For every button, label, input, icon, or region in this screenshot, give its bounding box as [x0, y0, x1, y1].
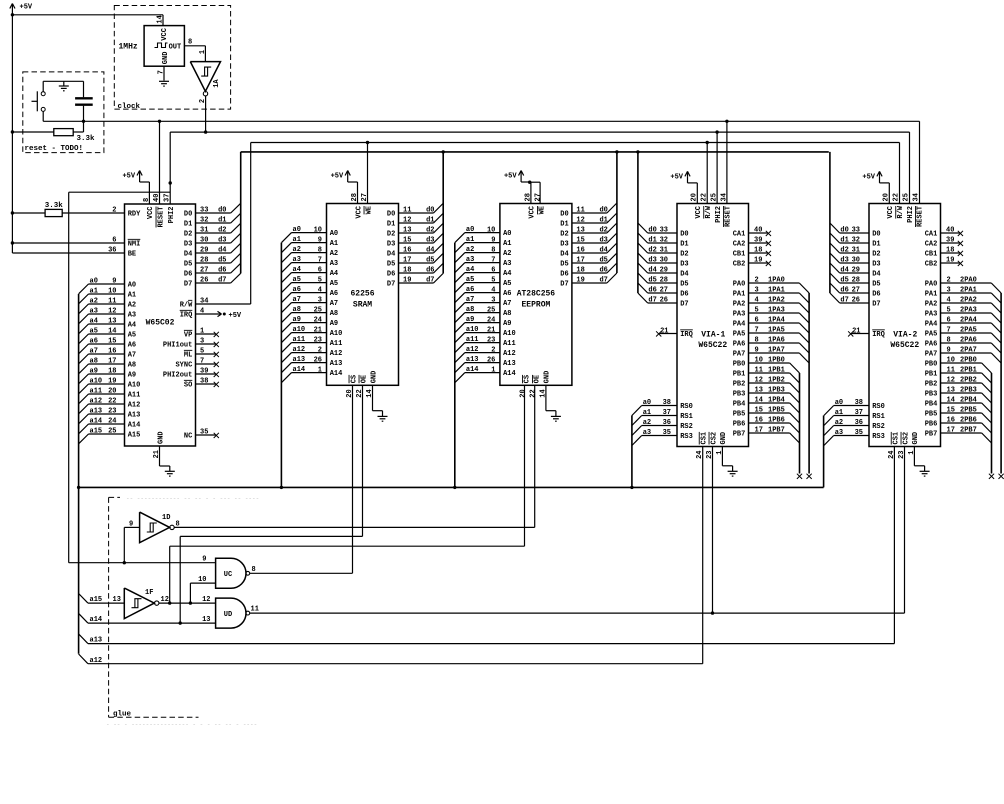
VIA-2 pin 27 D6: [840, 292, 869, 294]
wire VIA-1 CS2 pin down to UD net: [712, 447, 714, 614]
VIA-2 body: [869, 204, 941, 447]
svg-text:19: 19: [754, 257, 762, 265]
svg-text:PA5: PA5: [925, 331, 938, 339]
svg-text:16: 16: [108, 348, 116, 356]
CPU pin 27 D6: [196, 272, 231, 274]
svg-text:PA5: PA5: [733, 331, 746, 339]
svg-text:a1: a1: [466, 236, 474, 244]
svg-text:a14: a14: [466, 366, 479, 374]
svg-text:a12: a12: [90, 657, 103, 665]
svg-text:ML: ML: [184, 352, 192, 360]
svg-text:d4: d4: [648, 267, 656, 275]
VIA-2 pin 29 D4: [840, 272, 869, 274]
svg-text:A2: A2: [503, 250, 511, 258]
svg-text:RDY: RDY: [128, 211, 141, 219]
svg-text:9: 9: [129, 521, 133, 529]
svg-text:18: 18: [108, 368, 116, 376]
svg-text:GND: GND: [162, 52, 170, 65]
SRAM 62256 pin 24 A9: [292, 322, 327, 324]
svg-text:1PB3: 1PB3: [768, 387, 785, 395]
svg-text:A14: A14: [330, 370, 343, 378]
svg-text:26: 26: [200, 277, 208, 285]
svg-text:A11: A11: [330, 340, 343, 348]
svg-text:PB4: PB4: [733, 401, 746, 409]
svg-text:11: 11: [403, 207, 411, 215]
svg-text:11: 11: [947, 367, 955, 375]
VIA-2 pin 13 PB3: [941, 392, 982, 394]
svg-text:GND: GND: [157, 431, 165, 444]
wire R/W net: [251, 142, 900, 144]
CPU pin 33 D0: [196, 212, 231, 214]
svg-text:18: 18: [946, 247, 954, 255]
svg-text:A4: A4: [330, 270, 338, 278]
svg-text:a7: a7: [466, 296, 474, 304]
svg-text:PB2: PB2: [733, 381, 746, 389]
svg-text:14: 14: [108, 328, 116, 336]
svg-text:a8: a8: [293, 306, 301, 314]
VIA-2 pin 26 D7: [840, 302, 869, 304]
oscillator X? 1MHz body: [144, 26, 184, 67]
EEPROM AT28C256 pin 4 A6: [465, 292, 500, 294]
svg-text:9: 9: [202, 556, 206, 564]
svg-text:RS3: RS3: [872, 433, 885, 441]
svg-text:a10: a10: [293, 326, 306, 334]
svg-text:33: 33: [852, 227, 860, 235]
wire PHI2 down to VIA-2 PHI2 pin: [909, 132, 911, 203]
inverter 1D body: [140, 512, 170, 543]
VIA-1 pin 16 PB6: [749, 422, 790, 424]
svg-text:RS1: RS1: [680, 413, 693, 421]
svg-text:A3: A3: [128, 312, 136, 320]
VIA-1 pin 33 D0: [648, 232, 677, 234]
svg-text:2PB5: 2PB5: [960, 407, 977, 415]
wire CPU R/W pin to R/W net: [196, 303, 251, 305]
svg-text:SO: SO: [184, 382, 192, 390]
svg-text:D2: D2: [680, 251, 688, 259]
CPU pin 29 D4: [196, 252, 231, 254]
CPU pin 24 A14: [89, 423, 125, 425]
svg-text:CS2: CS2: [710, 432, 718, 445]
svg-text:RESET: RESET: [917, 206, 925, 227]
svg-text:a11: a11: [466, 336, 479, 344]
CPU pin 26 D7: [196, 282, 231, 284]
svg-text:IRQ: IRQ: [180, 312, 193, 320]
NAND UC body: [216, 558, 246, 588]
svg-text:15: 15: [403, 237, 411, 245]
svg-text:OE: OE: [360, 375, 368, 383]
resistor R? 3.3k (reset pull-up): [54, 129, 73, 136]
EEPROM AT28C256 pin 22 OE: [532, 375, 541, 383]
inverter 1D output pin 8 wire to EEPROM OE: [174, 526, 535, 528]
svg-text:A0: A0: [330, 230, 338, 238]
svg-text:d0: d0: [426, 207, 434, 215]
svg-text:a7: a7: [90, 348, 98, 356]
svg-text:PB3: PB3: [733, 391, 746, 399]
SRAM 62256 pin 13 D2: [399, 232, 434, 234]
CPU pin 18 A9: [89, 373, 125, 375]
EEPROM AT28C256 pin 15 D3: [572, 242, 607, 244]
EEPROM AT28C256 pin 27 WE: [537, 206, 546, 214]
svg-text:a15: a15: [90, 596, 103, 604]
SRAM 62256 pin 14 GND + ground: [372, 385, 374, 410]
data bus VIA-1 vertical: [637, 152, 639, 293]
svg-text:PB7: PB7: [925, 431, 938, 439]
VIA-2 pin 38 RS0: [834, 405, 869, 407]
svg-text:a1: a1: [643, 409, 651, 417]
wire +5V rail to reset resistor: [12, 131, 53, 133]
EEPROM AT28C256 pin 9 A1: [465, 242, 500, 244]
VIA-2 pin 24 CS1: [891, 432, 900, 445]
svg-text:A12: A12: [128, 402, 141, 410]
CPU pin 17 A8: [89, 363, 125, 365]
svg-text:d4: d4: [218, 247, 226, 255]
svg-text:A9: A9: [128, 372, 136, 380]
svg-text:D7: D7: [560, 281, 568, 289]
svg-text:1PA1: 1PA1: [768, 287, 785, 295]
svg-text:29: 29: [200, 247, 208, 255]
junction RESET/CPU: [158, 120, 161, 123]
VIA-1 pin 17 PB7: [749, 432, 790, 434]
svg-text:37: 37: [855, 409, 863, 417]
svg-text:20: 20: [108, 388, 116, 396]
svg-text:a5: a5: [293, 276, 301, 284]
svg-text:PA7: PA7: [733, 351, 746, 359]
capacitor C?: [83, 81, 85, 97]
svg-text:27: 27: [852, 287, 860, 295]
EEPROM AT28C256 pin 21 A10: [465, 332, 500, 334]
svg-text:D1: D1: [387, 221, 395, 229]
VIA-2 pin 17 PB7: [941, 432, 982, 434]
svg-text:17: 17: [108, 358, 116, 366]
svg-text:a3: a3: [466, 256, 474, 264]
svg-text:14: 14: [755, 397, 763, 405]
oscillator pin 14 VCC: [162, 15, 164, 26]
svg-text:21: 21: [314, 326, 322, 334]
VIA-1 pin 26 D7: [648, 302, 677, 304]
VIA-1 pin 28 D5: [648, 282, 677, 284]
svg-text:SRAM: SRAM: [353, 301, 372, 310]
svg-text:a13: a13: [293, 356, 306, 364]
EEPROM AT28C256 pin 24 A9: [465, 322, 500, 324]
VIA-1 pin 23 CS2: [709, 432, 718, 445]
svg-text:a11: a11: [90, 388, 103, 396]
svg-text:PHI2: PHI2: [168, 207, 176, 224]
svg-text:D0: D0: [560, 211, 568, 219]
svg-text:14: 14: [366, 389, 374, 397]
EEPROM AT28C256 pin 11 D0: [572, 212, 607, 214]
svg-text:32: 32: [200, 217, 208, 225]
svg-text:a2: a2: [835, 419, 843, 427]
VIA-1 +5V power symbol: [687, 176, 689, 183]
svg-text:d2: d2: [426, 227, 434, 235]
svg-text:12: 12: [161, 596, 169, 604]
CPU pin 37 PHI2: [169, 132, 171, 204]
VIA-1 pin 9 PA7: [749, 352, 800, 354]
junction +5V rail / oscillator feed: [11, 13, 14, 16]
svg-text:D3: D3: [560, 241, 568, 249]
svg-text:RS1: RS1: [872, 413, 885, 421]
wire EEPROM WE tied to +5V: [530, 181, 540, 183]
svg-text:33: 33: [200, 207, 208, 215]
svg-text:19: 19: [576, 277, 584, 285]
svg-text:A6: A6: [330, 290, 338, 298]
svg-text:A5: A5: [128, 332, 136, 340]
EEPROM AT28C256 pin 16 D4: [572, 252, 607, 254]
svg-text:a4: a4: [466, 266, 474, 274]
svg-text:D2: D2: [560, 231, 568, 239]
svg-text:d7: d7: [218, 277, 226, 285]
CPU pin 22 A12: [89, 403, 125, 405]
svg-text:a6: a6: [90, 338, 98, 346]
svg-text:a4: a4: [90, 318, 98, 326]
svg-text:d3: d3: [648, 257, 656, 265]
svg-text:14: 14: [539, 389, 547, 397]
VIA-1 pin 36 RS2: [642, 425, 677, 427]
svg-text:25: 25: [487, 306, 495, 314]
svg-text:3: 3: [318, 296, 322, 304]
svg-text:31: 31: [200, 227, 208, 235]
oscillator pin 7 GND + ground: [163, 66, 165, 80]
junction d-bus/VIA-1: [636, 150, 639, 153]
wire a15 to inverter 1F: [88, 602, 124, 604]
svg-text:a3: a3: [643, 429, 651, 437]
svg-text:d0: d0: [840, 227, 848, 235]
svg-text:a14: a14: [293, 366, 306, 374]
SRAM 62256 pin 19 D7: [399, 282, 434, 284]
svg-text:1PA3: 1PA3: [768, 307, 785, 315]
svg-text:VCC: VCC: [529, 206, 537, 219]
junction RESET/VIA-1: [725, 120, 728, 123]
svg-text:20: 20: [519, 389, 527, 397]
svg-text:a9: a9: [90, 368, 98, 376]
svg-text:29: 29: [852, 267, 860, 275]
VIA-1 pin 6 PA4: [749, 322, 800, 324]
svg-text:40: 40: [754, 227, 762, 235]
svg-text:12: 12: [108, 308, 116, 316]
SRAM 62256 +5V power symbol: [347, 176, 349, 183]
svg-text:21: 21: [660, 327, 668, 335]
data bus d spine: [241, 151, 829, 153]
VIA-1 pin 19 CB2: [749, 262, 768, 264]
svg-text:32: 32: [852, 237, 860, 245]
svg-text:VCC: VCC: [695, 206, 703, 219]
EEPROM AT28C256 pin 26 A13: [465, 362, 500, 364]
svg-text:d5: d5: [648, 277, 656, 285]
svg-text:A5: A5: [503, 280, 511, 288]
svg-text:1PB7: 1PB7: [768, 427, 785, 435]
junction reset node: [82, 120, 85, 123]
svg-text:6: 6: [947, 317, 951, 325]
svg-text:a0: a0: [293, 226, 301, 234]
CPU pin 13 A4: [89, 323, 125, 325]
svg-text:7: 7: [318, 256, 322, 264]
svg-text:a13: a13: [90, 637, 103, 645]
svg-text:17: 17: [947, 427, 955, 435]
SRAM 62256 body: [327, 204, 399, 386]
svg-text:a2: a2: [643, 419, 651, 427]
svg-text:D1: D1: [680, 241, 688, 249]
svg-text:A15: A15: [128, 432, 141, 440]
junction +5V rail / reset resistor: [11, 130, 14, 133]
svg-text:RESET: RESET: [725, 206, 733, 227]
svg-text:EEPROM: EEPROM: [521, 301, 550, 310]
svg-text:35: 35: [663, 429, 671, 437]
svg-text:a13: a13: [90, 408, 103, 416]
svg-text:7: 7: [755, 327, 759, 335]
svg-text:18: 18: [576, 267, 584, 275]
svg-text:15: 15: [755, 407, 763, 415]
inverter 1F bubble: [155, 601, 159, 605]
wire UD output up to VIA-2 CS2: [904, 447, 906, 614]
wire R/W down to VIA-1 R/W pin: [706, 143, 708, 204]
inverter 1A output pin 2 wire to PHI2 net: [205, 96, 207, 132]
VIA-1 PB bus: [799, 373, 801, 474]
address bus CPU vertical: [78, 294, 80, 654]
bus entry a13: [79, 634, 88, 644]
junction 1D input branch: [123, 561, 126, 564]
svg-text:VIA-2: VIA-2: [893, 331, 917, 340]
reset ground symbol: [63, 81, 65, 85]
svg-text:WE: WE: [539, 206, 547, 214]
CPU pin 15 A6: [89, 343, 125, 345]
VIA-2 pin 10 PB0: [941, 362, 982, 364]
svg-text:PB2: PB2: [925, 381, 938, 389]
VIA-1 body: [677, 204, 749, 447]
inverter 1F output pin 12 wire to NAND UD input 12: [159, 602, 216, 604]
svg-text:PA6: PA6: [733, 341, 746, 349]
svg-text:7: 7: [157, 70, 165, 74]
CPU pin 10 A1: [89, 293, 125, 295]
svg-text:D5: D5: [872, 281, 880, 289]
svg-text:A10: A10: [128, 382, 141, 390]
svg-text:d1: d1: [599, 217, 607, 225]
VIA-1 pin 7 PA5: [749, 332, 800, 334]
data bus CPU vertical: [240, 152, 242, 274]
CPU U? W65C02 body: [125, 204, 196, 446]
svg-text:1A: 1A: [213, 79, 221, 88]
junction +5V rail / RDY resistor: [11, 211, 14, 214]
svg-text:15: 15: [576, 237, 584, 245]
svg-text:A9: A9: [330, 320, 338, 328]
EEPROM AT28C256 pin 28 VCC: [530, 182, 532, 204]
NAND UC output 8 wire to SRAM CS: [250, 572, 353, 574]
SRAM 62256 pin 17 D5: [399, 262, 434, 264]
svg-text:6: 6: [491, 266, 495, 274]
VIA-1 pin 35 RS3: [642, 435, 677, 437]
svg-text:AT28C256: AT28C256: [517, 290, 556, 299]
inverter 1D bubble: [170, 525, 174, 529]
svg-text:a10: a10: [90, 378, 103, 386]
junction PHI2/VIA-1: [715, 130, 718, 133]
CPU pin 9 A0: [89, 283, 125, 285]
svg-text:28: 28: [200, 257, 208, 265]
svg-text:d7: d7: [599, 277, 607, 285]
svg-text:d0: d0: [218, 207, 226, 215]
junction +5V rail / NMI: [11, 241, 14, 244]
CPU pin 31 D2: [196, 232, 231, 234]
NAND UC bubble: [246, 571, 250, 575]
EEPROM AT28C256 pin 10 A0: [465, 232, 500, 234]
svg-text:10: 10: [755, 357, 763, 365]
svg-text:a1: a1: [835, 409, 843, 417]
svg-text:d7: d7: [648, 297, 656, 305]
wire R/W down to VIA-2 R/W pin: [899, 143, 901, 204]
wire +5V rail to CPU BE: [12, 252, 124, 254]
bus entry a15: [79, 594, 88, 604]
svg-text:2PA5: 2PA5: [960, 327, 977, 335]
svg-text:VCC: VCC: [147, 207, 155, 220]
svg-text:CA2: CA2: [733, 241, 746, 249]
wire RESET down to VIA-2 RESET pin: [919, 121, 921, 203]
svg-text:23: 23: [314, 336, 322, 344]
svg-text:d6: d6: [599, 267, 607, 275]
NAND UD body: [216, 598, 246, 628]
svg-text:9: 9: [318, 236, 322, 244]
VIA-1 pin 40 CA1: [749, 232, 768, 234]
svg-text:27: 27: [534, 193, 542, 201]
svg-text:2PA3: 2PA3: [960, 307, 977, 315]
svg-text:a2: a2: [90, 298, 98, 306]
junction a-bus spine: [77, 486, 80, 489]
svg-text:17: 17: [403, 257, 411, 265]
svg-text:13: 13: [403, 227, 411, 235]
svg-text:A5: A5: [330, 280, 338, 288]
svg-text:PB6: PB6: [925, 421, 938, 429]
CPU pin 28 D5: [196, 262, 231, 264]
svg-text:2PB7: 2PB7: [960, 427, 977, 435]
svg-text:a13: a13: [466, 356, 479, 364]
svg-text:39: 39: [754, 237, 762, 245]
svg-text:8: 8: [252, 566, 256, 574]
svg-text:39: 39: [946, 237, 954, 245]
CPU pin 40 RESET: [159, 121, 161, 204]
svg-text:3.3k: 3.3k: [77, 135, 96, 143]
svg-text:a6: a6: [466, 286, 474, 294]
svg-text:a2: a2: [293, 246, 301, 254]
CPU pin 12 A3: [89, 313, 125, 315]
inverter 1A bubble: [203, 92, 207, 96]
svg-text:28: 28: [660, 277, 668, 285]
svg-text:D3: D3: [184, 241, 192, 249]
SRAM 62256 pin 2 A12: [292, 352, 327, 354]
svg-text:16: 16: [576, 247, 584, 255]
svg-text:13: 13: [755, 387, 763, 395]
svg-text:1PB1: 1PB1: [768, 367, 785, 375]
VIA-2 pin 36 RS2: [834, 425, 869, 427]
svg-text:26: 26: [852, 297, 860, 305]
svg-text:SYNC: SYNC: [175, 362, 192, 370]
EEPROM AT28C256 pin 18 D6: [572, 272, 607, 274]
svg-text:2PB3: 2PB3: [960, 387, 977, 395]
junction R/W / SRAM WE: [366, 141, 369, 144]
svg-text:D1: D1: [184, 221, 192, 229]
svg-text:18: 18: [754, 247, 762, 255]
VIA-2 PB bus no-connect X: [989, 474, 994, 479]
svg-text:11: 11: [576, 207, 584, 215]
VIA-2 pin 15 PB5: [941, 412, 982, 414]
svg-text:D6: D6: [872, 291, 880, 299]
svg-text:d2: d2: [840, 247, 848, 255]
junction 1F output / EEPROM CS riser: [168, 601, 171, 604]
svg-text:CS1: CS1: [701, 432, 709, 445]
resistor R? 3.3k (RDY pull-up): [12, 212, 45, 214]
svg-text:6: 6: [318, 266, 322, 274]
VIA-2 pin 7 PA5: [941, 332, 992, 334]
svg-text:PHI1out: PHI1out: [163, 342, 192, 350]
SRAM 62256 pin 27 WE: [364, 206, 373, 214]
svg-text:D4: D4: [872, 271, 880, 279]
svg-text:1PB0: 1PB0: [768, 357, 785, 365]
